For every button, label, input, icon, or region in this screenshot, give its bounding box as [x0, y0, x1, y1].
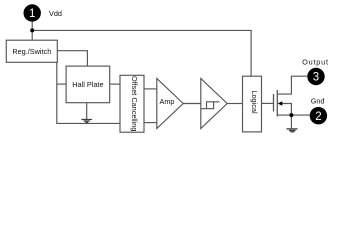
svg-text:1: 1	[29, 8, 35, 20]
svg-text:Logical: Logical	[250, 90, 259, 114]
svg-text:Reg./Switch: Reg./Switch	[12, 47, 51, 56]
svg-text:Hall Plate: Hall Plate	[72, 80, 103, 89]
svg-text:Output: Output	[302, 57, 329, 66]
svg-text:3: 3	[313, 72, 319, 84]
svg-text:Gnd: Gnd	[311, 96, 325, 105]
svg-text:Offset Cancelling: Offset Cancelling	[130, 76, 139, 131]
svg-text:Amp: Amp	[159, 97, 174, 106]
svg-text:2: 2	[315, 111, 321, 123]
svg-text:Vdd: Vdd	[49, 9, 62, 18]
